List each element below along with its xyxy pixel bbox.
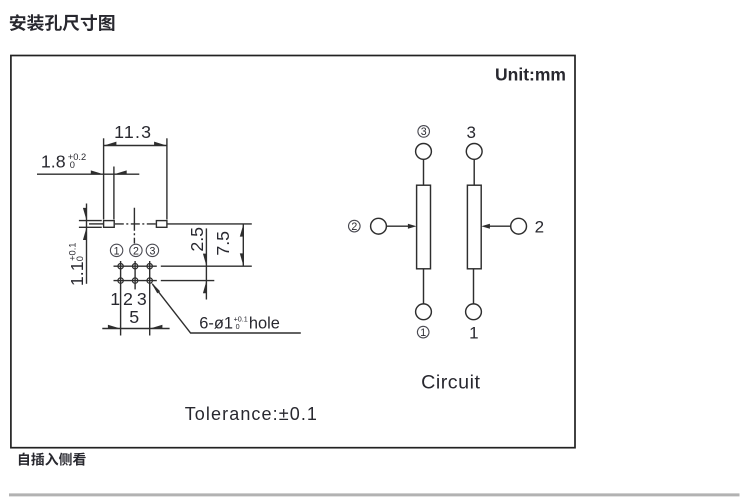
dim 11.3 dimension line xyxy=(104,145,167,147)
P2 wire top xyxy=(473,159,475,185)
svg-text:1: 1 xyxy=(469,324,478,343)
P1 wiper arrow xyxy=(408,224,417,229)
svg-text:0: 0 xyxy=(70,160,75,170)
dim 1.8 extension line xyxy=(113,167,115,220)
hole r1c3 xyxy=(147,264,152,269)
drawing frame border xyxy=(11,56,575,448)
terminal label circled 3 xyxy=(146,244,158,256)
svg-text:1.8: 1.8 xyxy=(41,151,66,171)
svg-text:2.5: 2.5 xyxy=(187,227,207,252)
hole r2c3 xyxy=(147,278,152,283)
centre line horizontal stub left of slots xyxy=(89,223,103,225)
dim 5 dimension line xyxy=(102,328,169,330)
svg-text:3: 3 xyxy=(466,123,475,142)
footer note 自插入侧看 xyxy=(19,453,86,466)
P2 terminal bottom (pin 1) xyxy=(466,304,482,320)
P2 terminal top (pin 3) xyxy=(466,144,482,160)
svg-text:3: 3 xyxy=(137,289,147,309)
row2 extension line (2.5 dim bottom) xyxy=(161,280,215,282)
svg-text:1: 1 xyxy=(114,245,120,257)
svg-text:2: 2 xyxy=(133,245,139,257)
potentiometer P2 resistive element xyxy=(467,185,481,269)
title 安装孔尺寸图 xyxy=(10,14,115,31)
P2 wire bottom xyxy=(473,269,475,304)
svg-text:Unit:mm: Unit:mm xyxy=(495,65,566,85)
hole r2c2 xyxy=(132,278,137,283)
dim 11.3 extension line left xyxy=(103,138,105,219)
extension line top of 7.5 dim (centre level) xyxy=(167,223,252,225)
hole r1c2 xyxy=(132,264,137,269)
svg-text:hole: hole xyxy=(249,314,280,332)
terminal label circled 1 xyxy=(110,244,122,256)
P1 terminal top (pin 3) xyxy=(416,144,432,160)
svg-text:6-ø1: 6-ø1 xyxy=(199,314,233,332)
bottom separator rule xyxy=(9,493,740,496)
P2 wiper terminal (pin 2) xyxy=(511,218,527,234)
svg-text:3: 3 xyxy=(149,245,155,257)
dim 11.3 extension line right xyxy=(166,138,168,219)
P1 pin label circled 1 xyxy=(417,326,429,338)
leader line to hole note xyxy=(153,284,301,333)
row1 extension line (7.5 dim bottom) xyxy=(161,265,252,267)
dim 2.5 dimension line xyxy=(205,228,207,299)
svg-text:3: 3 xyxy=(421,126,427,138)
dim 7.5 dimension line xyxy=(242,224,244,266)
P1 wiper wire xyxy=(387,225,410,227)
svg-text:2: 2 xyxy=(123,289,133,309)
svg-text:1: 1 xyxy=(420,327,426,339)
hole centre line row2 xyxy=(114,280,157,282)
dim 1.1 extension line bottom xyxy=(79,226,102,228)
svg-text:2: 2 xyxy=(351,221,357,233)
terminal label circled 2 xyxy=(130,244,142,256)
svg-text:11.3: 11.3 xyxy=(114,122,152,142)
potentiometer P1 resistive element xyxy=(417,185,431,269)
P1 terminal bottom (pin 1) xyxy=(416,304,432,320)
P2 wiper arrow xyxy=(481,224,490,229)
hole column line 2 xyxy=(134,261,136,289)
svg-text:1: 1 xyxy=(110,289,120,309)
hole r1c1 xyxy=(118,264,123,269)
P2 wiper wire xyxy=(489,225,511,227)
centre line vertical dash-dot xyxy=(133,208,135,244)
svg-text:2: 2 xyxy=(535,217,544,236)
dim 1.8 dimension line xyxy=(37,173,139,175)
dim 1.1 dimension line xyxy=(86,204,88,284)
P1 wiper terminal (pin 2) xyxy=(371,218,387,234)
slot right xyxy=(156,221,167,228)
svg-text:0: 0 xyxy=(236,322,240,331)
centre line horizontal dash-dot between slots xyxy=(115,223,156,225)
hole column line 1 (also 5-dim extension) xyxy=(120,261,122,336)
dim 1.1 extension line top xyxy=(79,220,102,222)
P1 pin label circled 2 xyxy=(349,220,361,232)
slot left (1.8 x 1.1) xyxy=(104,221,115,228)
hole centre line row1 xyxy=(114,265,157,267)
P1 wire bottom xyxy=(423,269,425,304)
svg-text:1.1: 1.1 xyxy=(67,261,87,286)
P1 pin label circled 3 xyxy=(418,126,430,138)
svg-text:Circuit: Circuit xyxy=(421,371,480,393)
hole r2c1 xyxy=(118,278,123,283)
hole column line 3 (also 5-dim extension) xyxy=(149,261,151,336)
svg-text:5: 5 xyxy=(129,307,139,327)
svg-text:0: 0 xyxy=(75,256,85,261)
P1 wire top xyxy=(423,159,425,185)
svg-text:7.5: 7.5 xyxy=(213,231,233,256)
svg-text:Tolerance:±0.1: Tolerance:±0.1 xyxy=(185,404,318,424)
